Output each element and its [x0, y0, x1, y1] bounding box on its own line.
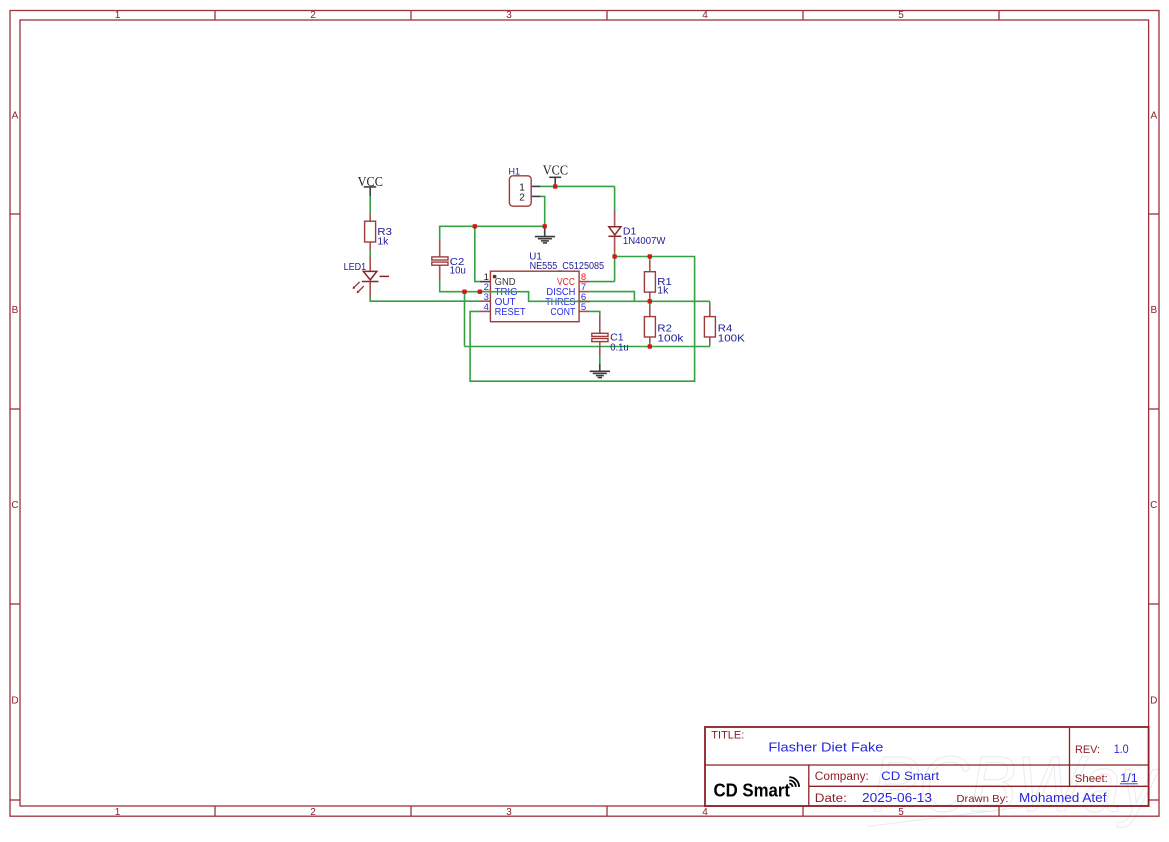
svg-text:B: B — [1150, 305, 1157, 316]
svg-text:NE555_C5125085: NE555_C5125085 — [530, 261, 605, 272]
svg-text:2: 2 — [310, 807, 316, 818]
svg-text:1: 1 — [115, 807, 121, 818]
svg-text:CD Smart: CD Smart — [714, 780, 791, 800]
svg-text:A: A — [12, 111, 19, 122]
svg-text:B: B — [12, 305, 19, 316]
svg-text:3: 3 — [506, 10, 512, 21]
svg-text:Mohamed Atef: Mohamed Atef — [1019, 791, 1107, 805]
svg-text:Flasher Diet Fake: Flasher Diet Fake — [768, 739, 883, 754]
svg-text:100k: 100k — [657, 333, 684, 345]
svg-text:Drawn By:: Drawn By: — [956, 793, 1008, 805]
svg-text:2025-06-13: 2025-06-13 — [862, 791, 932, 805]
svg-text:5: 5 — [581, 302, 586, 313]
svg-text:2: 2 — [310, 10, 316, 21]
svg-text:Company:: Company: — [815, 771, 869, 783]
svg-text:CD Smart: CD Smart — [881, 769, 940, 783]
svg-text:1k: 1k — [377, 235, 389, 247]
svg-text:H1: H1 — [509, 166, 521, 177]
svg-text:1: 1 — [115, 10, 121, 21]
svg-text:4: 4 — [484, 302, 489, 313]
svg-text:Sheet:: Sheet: — [1075, 773, 1108, 785]
svg-text:5: 5 — [898, 10, 904, 21]
svg-text:A: A — [1150, 111, 1157, 122]
svg-text:1N4007W: 1N4007W — [623, 235, 666, 247]
svg-text:VCC: VCC — [543, 163, 568, 178]
svg-text:0.1u: 0.1u — [610, 342, 629, 354]
svg-text:REV:: REV: — [1075, 744, 1100, 756]
svg-text:4: 4 — [702, 807, 708, 818]
svg-text:100K: 100K — [718, 333, 745, 345]
svg-text:C: C — [1150, 500, 1157, 511]
svg-text:4: 4 — [702, 10, 708, 21]
svg-text:RESET: RESET — [495, 307, 526, 318]
svg-text:C: C — [11, 500, 18, 511]
svg-text:1/1: 1/1 — [1120, 773, 1137, 785]
svg-text:TITLE:: TITLE: — [711, 730, 744, 742]
svg-text:CONT: CONT — [550, 307, 575, 318]
svg-text:3: 3 — [506, 807, 512, 818]
svg-text:10u: 10u — [450, 265, 466, 277]
svg-text:D: D — [1150, 696, 1157, 707]
svg-text:5: 5 — [898, 807, 904, 818]
svg-text:1.0: 1.0 — [1114, 744, 1129, 756]
svg-text:LED1: LED1 — [344, 261, 367, 273]
svg-text:Date:: Date: — [815, 793, 847, 805]
svg-text:2: 2 — [519, 193, 525, 204]
svg-text:VCC: VCC — [358, 174, 383, 189]
svg-text:1k: 1k — [657, 285, 669, 297]
svg-text:D: D — [11, 696, 18, 707]
